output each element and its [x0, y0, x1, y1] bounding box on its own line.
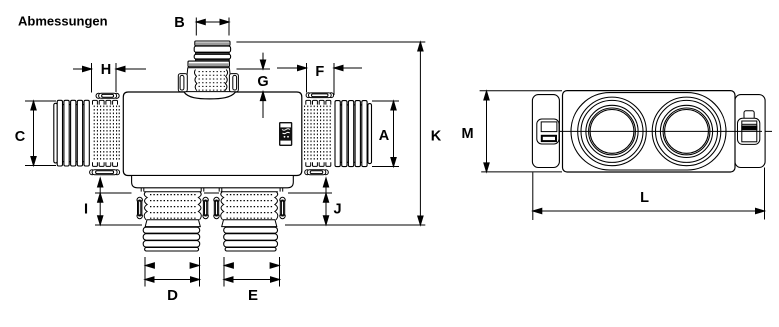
tube 1 collar rings [143, 227, 200, 251]
dimension C [25, 101, 56, 166]
top fitting right ear clip [229, 74, 238, 92]
svg-text:L: L [640, 190, 649, 206]
left gland top clip [96, 93, 119, 98]
svg-text:I: I [84, 202, 88, 218]
right view inner barrel [571, 93, 726, 170]
top corrugated tube [188, 41, 231, 67]
left opening circles [578, 97, 647, 166]
dimension G [260, 53, 265, 118]
G top extension line [237, 68, 271, 70]
dimension M [480, 91, 562, 172]
logo plate [279, 122, 292, 146]
I/J/K bottom extension line [95, 224, 425, 226]
svg-text:Abmessungen: Abmessungen [18, 14, 108, 29]
svg-text:A: A [379, 128, 390, 144]
I/J top extension line segments [95, 192, 332, 194]
right gland top clip [306, 93, 334, 98]
gland stubs [141, 188, 283, 192]
fitting 2 right clip [280, 197, 285, 218]
dimension H [73, 63, 146, 93]
bottom fitting 1 [144, 192, 201, 227]
svg-text:G: G [257, 74, 268, 90]
top fitting cup [185, 68, 232, 92]
bottom fitting 2 [221, 192, 278, 227]
right view left end cap [532, 95, 559, 168]
right view centerline [532, 130, 772, 132]
top fitting left ear clip [178, 74, 187, 92]
svg-text:H: H [101, 62, 111, 78]
right view right end cap [735, 95, 765, 168]
right cap latch [735, 111, 762, 145]
left gland bottom clip [90, 170, 120, 175]
svg-text:M: M [461, 126, 473, 142]
dimension J [323, 178, 328, 225]
dimension A [372, 101, 399, 167]
svg-text:D: D [167, 287, 178, 304]
left gland nut [94, 106, 119, 162]
dimension L [533, 168, 765, 221]
svg-text:K: K [431, 129, 442, 145]
fitting 1 left clip [137, 197, 142, 218]
svg-text:F: F [315, 64, 324, 80]
dimension B [196, 18, 229, 36]
svg-text:B: B [174, 15, 184, 31]
right gland nut [305, 106, 331, 162]
fitting 1 right clip [203, 197, 208, 218]
left corrugated tube [54, 100, 90, 166]
dimension E [224, 257, 280, 287]
bottom plate [132, 176, 294, 188]
right gland bottom clip [305, 170, 329, 175]
centerline across body [562, 130, 735, 132]
left cap latch [537, 119, 559, 144]
dimension F [277, 63, 362, 95]
K top extension line [236, 41, 425, 43]
svg-text:E: E [248, 287, 258, 304]
dimension K [418, 42, 423, 225]
svg-text:J: J [333, 202, 341, 218]
right opening circles [652, 97, 721, 166]
fitting 2 left clip [214, 197, 219, 218]
dimension D [145, 257, 200, 287]
dimension I [98, 178, 103, 225]
distributor body [123, 92, 301, 176]
svg-text:C: C [15, 129, 26, 145]
right view housing body [563, 91, 736, 172]
tube 2 collar rings [224, 227, 278, 251]
right corrugated tube [335, 101, 372, 167]
